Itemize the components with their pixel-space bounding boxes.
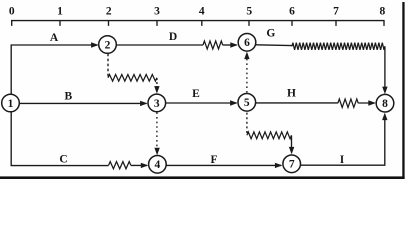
node 1	[2, 94, 20, 112]
arrowhead into node 6	[230, 42, 238, 47]
dashed segment into node 3 top	[156, 78, 158, 89]
wire: D continues to node 6	[223, 44, 237, 46]
arrowhead into node 8	[368, 100, 376, 105]
svg-text:8: 8	[382, 98, 388, 110]
svg-text:C: C	[59, 153, 67, 165]
svg-text:F: F	[210, 154, 217, 166]
svg-text:6: 6	[289, 6, 295, 18]
svg-text:E: E	[192, 88, 200, 100]
svg-text:3: 3	[154, 6, 160, 18]
node 6	[238, 34, 256, 52]
arrowhead into node 8 top	[382, 87, 387, 95]
arrowhead into node 3	[140, 101, 148, 106]
svg-text:4: 4	[199, 6, 205, 18]
wire: G turns down into node 8	[384, 46, 386, 88]
svg-text:4: 4	[155, 159, 161, 171]
svg-text:I: I	[340, 154, 345, 166]
arrowhead into node 5	[230, 100, 238, 105]
svg-text:7: 7	[289, 159, 295, 171]
squiggle: float on activity G	[292, 43, 385, 50]
wire: activity A from node 1 up and right to node 2	[11, 45, 97, 95]
wire: activity H from node 5	[256, 102, 338, 104]
time scale axis line	[11, 20, 385, 22]
bottom border rule	[0, 176, 405, 179]
dotted drop line below node 5	[246, 113, 248, 134]
node 7	[283, 155, 301, 173]
scale tick marks 0-8	[12, 21, 384, 26]
right border rule	[402, 2, 404, 179]
wire: activity F from node 4 to node 7	[166, 164, 281, 166]
wire: short segment into node 7 top	[291, 136, 293, 150]
svg-text:2: 2	[105, 39, 111, 51]
arrowhead into node 7 top	[289, 147, 294, 155]
arrowhead into node 3 top	[154, 86, 159, 94]
arrowhead into node 4 top	[154, 148, 159, 156]
squiggle: float on activity C	[109, 162, 131, 169]
node 2	[99, 36, 117, 54]
svg-text:3: 3	[154, 98, 160, 110]
arrowhead into node 4	[141, 163, 149, 168]
svg-text:2: 2	[106, 6, 112, 18]
svg-text:B: B	[64, 90, 72, 102]
node 5	[238, 94, 256, 112]
svg-text:6: 6	[244, 37, 250, 49]
arrowhead into node 2	[91, 42, 99, 47]
wire: activity E from node 3 to node 5	[166, 102, 237, 104]
svg-text:1: 1	[57, 6, 63, 18]
squiggle: float on activity H	[338, 99, 358, 107]
svg-text:5: 5	[246, 6, 252, 18]
svg-text:D: D	[169, 31, 177, 43]
svg-text:G: G	[266, 28, 275, 40]
dotted dummy from node 5 up to node 6	[246, 58, 248, 93]
svg-text:A: A	[50, 32, 59, 44]
wire: activity D from node 2	[116, 44, 203, 46]
svg-text:5: 5	[244, 97, 250, 109]
svg-text:H: H	[287, 88, 296, 100]
arrowhead into node 8 bottom	[382, 113, 387, 121]
node 4	[149, 156, 167, 174]
squiggle: float from node 2 toward node 3	[108, 75, 157, 82]
wire: H continues to node 8	[358, 102, 374, 104]
svg-text:0: 0	[9, 6, 15, 18]
dotted dummy from node 3 down to node 4	[156, 112, 158, 149]
wire: activity G from node 6	[256, 44, 292, 47]
dashed drop line below node 2	[107, 54, 109, 77]
squiggle: float from node 5 toward node 7	[247, 132, 292, 139]
wire: activity B from node 1 to node 3	[19, 102, 146, 104]
svg-text:8: 8	[380, 6, 386, 18]
wire: activity C from node 1 down and right	[11, 112, 108, 166]
arrowhead into node 6 bottom	[244, 52, 249, 60]
svg-text:1: 1	[8, 98, 14, 110]
wire: activity I from node 7 right then up to node 8	[301, 117, 385, 165]
node 8	[376, 94, 394, 112]
svg-text:7: 7	[333, 6, 339, 18]
node 3	[148, 94, 166, 112]
arrowhead into node 7	[275, 163, 283, 168]
squiggle: float on activity D	[203, 41, 223, 49]
wire: C continues to node 4	[131, 164, 147, 166]
